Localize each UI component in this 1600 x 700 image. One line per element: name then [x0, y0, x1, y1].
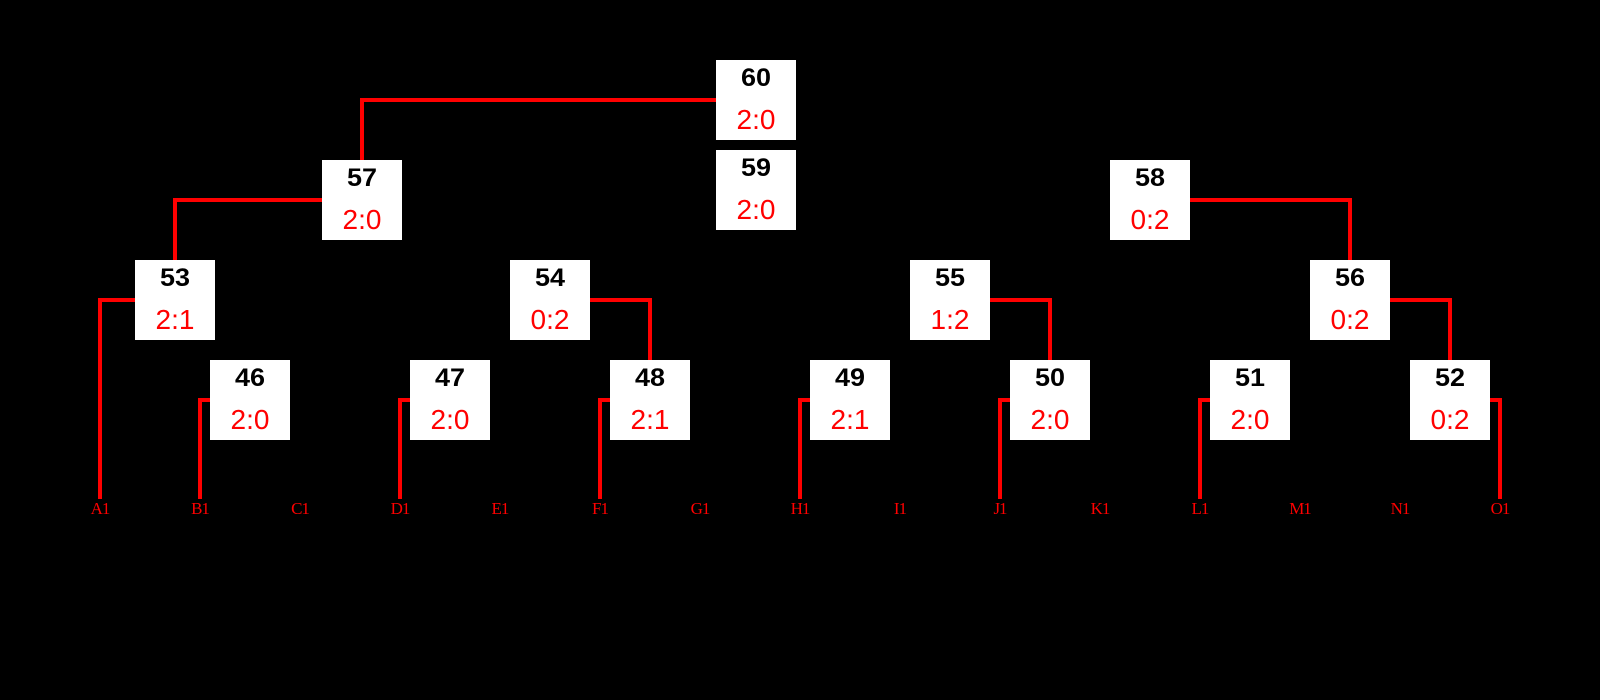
- svg-text:H1: H1: [791, 499, 810, 518]
- svg-text:I1: I1: [894, 499, 907, 518]
- svg-text:2:0: 2:0: [431, 404, 470, 435]
- svg-text:1:2: 1:2: [931, 304, 970, 335]
- svg-text:56: 56: [1335, 264, 1365, 292]
- svg-text:48: 48: [635, 364, 665, 392]
- svg-text:0:2: 0:2: [1431, 404, 1470, 435]
- wire 56 to 58: [1190, 200, 1350, 260]
- match box 56: [1310, 260, 1390, 340]
- svg-text:A1: A1: [91, 499, 110, 518]
- wire 48 to 54: [590, 300, 650, 360]
- wire 57 to 60: [362, 100, 716, 160]
- svg-text:59: 59: [741, 154, 771, 182]
- svg-text:0:2: 0:2: [1131, 204, 1170, 235]
- svg-text:B1: B1: [191, 499, 209, 518]
- svg-text:2:1: 2:1: [156, 304, 195, 335]
- svg-text:E1: E1: [492, 499, 509, 518]
- svg-text:2:0: 2:0: [343, 204, 382, 235]
- svg-text:C1: C1: [291, 499, 309, 518]
- wire L1 to 51: [1200, 400, 1210, 499]
- svg-text:50: 50: [1035, 364, 1065, 392]
- svg-text:M1: M1: [1289, 499, 1311, 518]
- match box 46: [210, 360, 290, 440]
- svg-text:L1: L1: [1192, 499, 1209, 518]
- svg-text:52: 52: [1435, 364, 1465, 392]
- svg-text:46: 46: [235, 364, 265, 392]
- svg-text:G1: G1: [691, 499, 710, 518]
- match box 49: [810, 360, 890, 440]
- wire 52 to 56: [1390, 300, 1450, 360]
- svg-text:2:0: 2:0: [737, 194, 776, 225]
- wire 50 to 55: [990, 300, 1050, 360]
- svg-text:53: 53: [160, 264, 190, 292]
- match box 50: [1010, 360, 1090, 440]
- svg-text:0:2: 0:2: [531, 304, 570, 335]
- svg-text:2:0: 2:0: [231, 404, 270, 435]
- svg-text:55: 55: [935, 264, 965, 292]
- svg-text:57: 57: [347, 164, 377, 192]
- svg-text:54: 54: [535, 264, 565, 292]
- svg-text:2:0: 2:0: [737, 104, 776, 135]
- match box 57: [322, 160, 402, 240]
- wire 53 to 57: [175, 200, 322, 260]
- svg-text:N1: N1: [1391, 499, 1410, 518]
- svg-text:F1: F1: [592, 499, 608, 518]
- svg-text:47: 47: [435, 364, 465, 392]
- match box 54: [510, 260, 590, 340]
- svg-text:O1: O1: [1491, 499, 1510, 518]
- svg-text:60: 60: [741, 64, 771, 92]
- svg-text:K1: K1: [1091, 499, 1110, 518]
- match box 52: [1410, 360, 1490, 440]
- wire H1 to 49: [800, 400, 810, 499]
- svg-text:D1: D1: [391, 499, 410, 518]
- svg-text:0:2: 0:2: [1331, 304, 1370, 335]
- match box 58: [1110, 160, 1190, 240]
- match box 53: [135, 260, 215, 340]
- wire F1 to 48: [600, 400, 610, 499]
- svg-text:2:1: 2:1: [831, 404, 870, 435]
- match box 48: [610, 360, 690, 440]
- wire O1 to 52: [1490, 400, 1500, 499]
- svg-text:58: 58: [1135, 164, 1165, 192]
- match box 51: [1210, 360, 1290, 440]
- match box 60: [716, 60, 796, 140]
- svg-text:2:1: 2:1: [631, 404, 670, 435]
- wire A1 to 53: [100, 300, 135, 499]
- svg-text:2:0: 2:0: [1031, 404, 1070, 435]
- wire D1 to 47: [400, 400, 410, 499]
- match box 59: [716, 150, 796, 230]
- svg-text:51: 51: [1235, 364, 1265, 392]
- wire J1 to 50: [1000, 400, 1010, 499]
- svg-text:49: 49: [835, 364, 865, 392]
- wire B1 to 46: [200, 400, 210, 499]
- match box 55: [910, 260, 990, 340]
- match box 47: [410, 360, 490, 440]
- svg-text:2:0: 2:0: [1231, 404, 1270, 435]
- svg-text:J1: J1: [993, 499, 1007, 518]
